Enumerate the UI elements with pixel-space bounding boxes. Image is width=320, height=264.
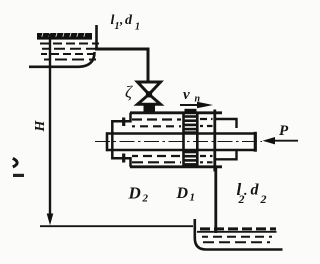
upper tank water surface hatched bar (37, 33, 92, 40)
lower tank water dashes (202, 237, 272, 243)
water dashes lower chamber (132, 156, 213, 162)
lower tank water surface line (197, 231, 277, 233)
lower level reference line (40, 225, 193, 227)
svg-text:1: 1 (115, 21, 120, 32)
H dimension arrowhead (47, 214, 54, 226)
label v_n (183, 87, 201, 105)
svg-text:v: v (183, 87, 190, 103)
svg-text:1: 1 (135, 22, 140, 33)
upper tank bottom with curved corner (29, 52, 95, 67)
rod right end (254, 132, 257, 152)
svg-text:H: H (33, 119, 48, 132)
cylinder top wall (130, 111, 222, 114)
svg-text:2: 2 (260, 192, 267, 206)
cylinder bottom wall (130, 165, 222, 168)
right gland bottom bracket (216, 151, 237, 160)
labels D2 D1 (128, 184, 196, 205)
rod left end (106, 132, 109, 151)
piston rod bottom line (106, 149, 256, 152)
v_n arrow (180, 104, 200, 106)
svg-text:d: d (125, 13, 133, 28)
upper tank water dashes (40, 44, 99, 60)
piston (184, 109, 198, 167)
label l2,d2 (237, 180, 267, 206)
svg-text:d: d (251, 182, 260, 199)
svg-text:P: P (279, 123, 289, 139)
piston rod top line (106, 132, 256, 135)
cylinder right wall (213, 110, 216, 172)
force P arrow (270, 140, 298, 142)
svg-text:,: , (119, 12, 123, 27)
cylinder left end cap steps (112, 113, 130, 167)
lower tank wall and bottom (195, 219, 283, 250)
valve outlet flange (144, 104, 156, 113)
svg-text:1: 1 (190, 192, 196, 204)
upper tank right wall (95, 25, 98, 48)
svg-text:ζ: ζ (125, 83, 133, 102)
svg-text:D: D (128, 184, 141, 203)
pipe 1 from tank to valve (95, 49, 148, 82)
svg-text:.: . (244, 184, 248, 199)
right gland top bracket (216, 119, 237, 128)
pipe 2 from cylinder down to lower tank (214, 167, 217, 233)
left cap inner ticks (122, 118, 125, 127)
svg-text:D: D (176, 185, 189, 202)
rod axis centerline (95, 141, 262, 143)
water dashes upper chamber (132, 119, 213, 126)
label l1,d1 (111, 12, 141, 33)
lower tank surface hatch dashes (200, 227, 276, 230)
valve (outlined hourglass) (138, 82, 161, 104)
H dimension vertical line (49, 34, 51, 216)
svg-text:2: 2 (142, 193, 149, 205)
left margin level mark (13, 158, 17, 167)
